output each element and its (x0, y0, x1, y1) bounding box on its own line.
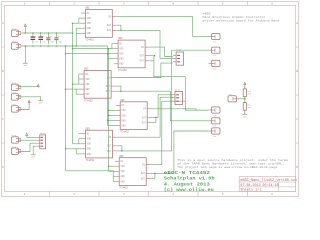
wire U5 out join (152, 122, 156, 124)
svg-text:A: A (296, 22, 298, 25)
svg-text:(c) www.olliw.eu: (c) www.olliw.eu (164, 187, 214, 193)
svg-text:4. August 2013: 4. August 2013 (164, 182, 210, 187)
wire tap to connector (236, 98, 244, 100)
connector X1 out (209, 33, 220, 39)
op-amp U$6 TC4452 (115, 158, 151, 190)
wire U1 vdd pair (78, 18, 80, 23)
svg-text:3: 3 (123, 193, 125, 196)
wire conn8 to header pin2 (18, 139, 36, 141)
svg-text:B: B (296, 70, 298, 73)
wire U3 out to R5 (117, 50, 209, 151)
wire divider tap (244, 97, 246, 103)
wire U2 in (115, 63, 172, 77)
wire GND bus left column (65, 46, 67, 171)
frame column ticks top (50, 2, 248, 6)
svg-text:D: D (2, 166, 4, 169)
svg-text:Schaltplan v1.0b: Schaltplan v1.0b (164, 176, 215, 181)
op-amp U$1 TC4452 (81, 10, 117, 42)
pin header SV?6 motor2 (172, 91, 183, 104)
connector SV?9 (11, 148, 20, 154)
wire gnd drop (24, 46, 26, 63)
connector SV?3 signal in (11, 84, 20, 90)
svg-text:U$2: U$2 (84, 68, 89, 71)
license paragraph (177, 159, 288, 169)
title text block top right (203, 12, 280, 23)
wire U6 gnd feed (66, 171, 115, 182)
wire U6 out to X6 (151, 131, 209, 173)
sheet frame outer (2, 2, 299, 197)
wire U5 in to X4 (152, 109, 209, 110)
wire VCC bus right column (108, 49, 110, 172)
svg-text:4: 4 (172, 3, 174, 6)
wire U1 in to X1 (117, 17, 209, 37)
wire U1 out join (117, 24, 121, 26)
wire vcc to rail (24, 28, 26, 33)
frame row ticks right (296, 47, 299, 143)
svg-text:SV?10: SV?10 (40, 132, 47, 135)
svg-text:SV?2: SV?2 (11, 40, 16, 43)
wire U2 out join (115, 85, 121, 87)
svg-text:U$5: U$5 (120, 99, 125, 102)
svg-text:C2: C2 (42, 36, 44, 38)
wire R2 to gnd (244, 110, 246, 114)
wire vcc to R1 (244, 85, 246, 89)
connector SV2 power - (11, 43, 20, 49)
capacitor C1 electrolytic (31, 33, 36, 43)
connector SV?7 (11, 106, 20, 112)
wire U3 gnd pair (75, 149, 77, 154)
connector X?7 sense (228, 96, 239, 102)
frame row letters (2, 22, 298, 169)
op-amp U$4 TC4452 (114, 40, 150, 72)
svg-text:X?1: X?1 (213, 40, 217, 43)
svg-text:U$6: U$6 (119, 155, 124, 158)
svg-text:6: 6 (271, 193, 273, 196)
wire U5 out to header2 pin1 (152, 95, 172, 118)
svg-text:U$3: U$3 (86, 127, 91, 130)
svg-text:This is a open source hardware: This is a open source hardware project, … (177, 159, 288, 162)
wire U2 gnd pair (75, 89, 77, 94)
svg-text:C: C (2, 118, 4, 121)
wire U4 vdd branches (112, 43, 114, 45)
ground (23, 63, 28, 67)
wire U5 vdd branches (109, 109, 116, 111)
connector SV?8 (11, 137, 20, 143)
svg-text:SV?9: SV?9 (11, 145, 16, 148)
svg-text:C4: C4 (58, 36, 60, 38)
svg-text:5: 5 (222, 3, 224, 6)
wire U2 vdd pair (78, 74, 80, 84)
svg-text:C3: C3 (50, 36, 52, 38)
wire U6 out join (151, 177, 155, 179)
frame column ticks bottom (50, 191, 248, 196)
wire GND bus right column (107, 46, 109, 126)
svg-text:X?2: X?2 (213, 54, 216, 57)
svg-text:U$1: U$1 (85, 7, 90, 10)
node VCC arrow divider (244, 82, 246, 85)
svg-text:4: 4 (172, 193, 174, 196)
svg-text:10u: 10u (42, 41, 45, 43)
svg-text:X?4: X?4 (213, 114, 217, 117)
wire U4 out to R4 (149, 61, 208, 110)
wire vcc to header pin1 (27, 135, 37, 137)
pin header SV?5 motor1 (173, 52, 184, 65)
wire U6 vdd branches (109, 165, 115, 167)
resistor R?2 (243, 99, 246, 114)
capacitor C2 electrolytic (38, 33, 43, 43)
svg-text:SV?7: SV?7 (11, 103, 16, 106)
op-amp U$5 TC4452 (116, 102, 152, 134)
resistor R?1 (243, 85, 246, 100)
pin header SV?10 4pin (37, 135, 46, 149)
svg-text:C: C (296, 118, 298, 121)
node VCC supply top left (24, 24, 26, 27)
op-amp U$2 TC4452 (80, 71, 116, 103)
ground mid (38, 101, 43, 105)
svg-text:1: 1 (24, 3, 26, 6)
svg-text:X?5: X?5 (213, 125, 217, 128)
wire conn4 to gnd (18, 97, 40, 101)
svg-text:Sheets 1/1: Sheets 1/1 (240, 188, 261, 193)
connector X6 out (209, 128, 220, 134)
svg-text:The project web page is www.ol: The project web page is www.olliw.eu/eBG… (177, 166, 278, 169)
connector SV?4 (11, 94, 20, 100)
wire VCC rail (21, 32, 72, 34)
wire header pin4 to gnd (33, 146, 36, 154)
capacitor C3 ceramic (46, 34, 50, 44)
wire U4 gnd branches (66, 53, 114, 55)
svg-text:10k: 10k (248, 107, 251, 109)
wire U6 in to header2 pin3 (151, 101, 186, 165)
svg-text:X?3: X?3 (213, 67, 217, 70)
svg-text:X?6: X?6 (213, 135, 217, 138)
svg-text:10u: 10u (34, 41, 37, 43)
svg-text:driver extension board for Ard: driver extension board for Arduino Nano (203, 19, 280, 23)
wire U5 gnd branches (108, 119, 116, 121)
wire U2 out to R2 (115, 91, 208, 121)
capacitor C4 ceramic (54, 34, 58, 44)
svg-text:C1: C1 (34, 36, 36, 38)
svg-text:eBGC-N TC4452: eBGC-N TC4452 (164, 170, 210, 175)
svg-text:1: 1 (24, 193, 26, 196)
ground divider (242, 114, 247, 118)
title block text (240, 178, 297, 193)
connector X5 out (209, 118, 220, 124)
svg-text:3: 3 (123, 3, 125, 6)
svg-text:of the TAPR Open Hardware Lice: of the TAPR Open Hardware License, www.t… (177, 162, 285, 165)
svg-text:B: B (2, 70, 4, 73)
frame column numbers (24, 3, 274, 197)
svg-text:D: D (296, 166, 298, 169)
svg-text:100n: 100n (50, 41, 54, 43)
connector SV1 power + (11, 30, 20, 36)
sheet frame inner (4, 5, 295, 191)
wire U4 in (149, 47, 172, 56)
wire U3 out join (117, 145, 122, 147)
connector X4 out (209, 107, 220, 113)
wire U1 gnd pair (75, 28, 77, 46)
connector X2 out (209, 47, 220, 53)
svg-text:A: A (2, 22, 4, 25)
svg-text:X?7: X?7 (229, 93, 232, 96)
op-amp U$3 TC4452 (81, 130, 117, 162)
svg-text:100n: 100n (58, 41, 62, 43)
title block (239, 177, 296, 192)
wire conn3 to vcc (18, 86, 38, 88)
ground header (31, 155, 36, 159)
wire conn9 to header pin3 (18, 143, 36, 151)
svg-text:5: 5 (222, 193, 224, 196)
node VCC arrow conn7 (28, 100, 30, 103)
wire U4 out join (149, 55, 154, 57)
svg-text:2: 2 (73, 3, 75, 6)
wire U1 out to header1 pin2 (117, 30, 173, 58)
svg-text:6: 6 (271, 3, 273, 6)
wire VCC bus left column (72, 23, 74, 144)
wire U3 in (117, 97, 173, 137)
connector X3 out (209, 60, 220, 66)
frame row ticks left (2, 47, 5, 143)
node VCC arrow mid (37, 84, 39, 87)
node VCC arrow header (26, 133, 28, 136)
svg-text:07.08.2013 20:54:18: 07.08.2013 20:54:18 (240, 183, 278, 187)
wire conn7 to vcc (18, 102, 29, 109)
svg-text:2: 2 (73, 193, 75, 196)
svg-text:10k: 10k (248, 93, 251, 95)
wire GND rail (21, 45, 107, 47)
svg-text:U$4: U$4 (118, 37, 123, 40)
schematic info green text (164, 170, 215, 193)
wire U3 vdd pair (78, 139, 80, 144)
